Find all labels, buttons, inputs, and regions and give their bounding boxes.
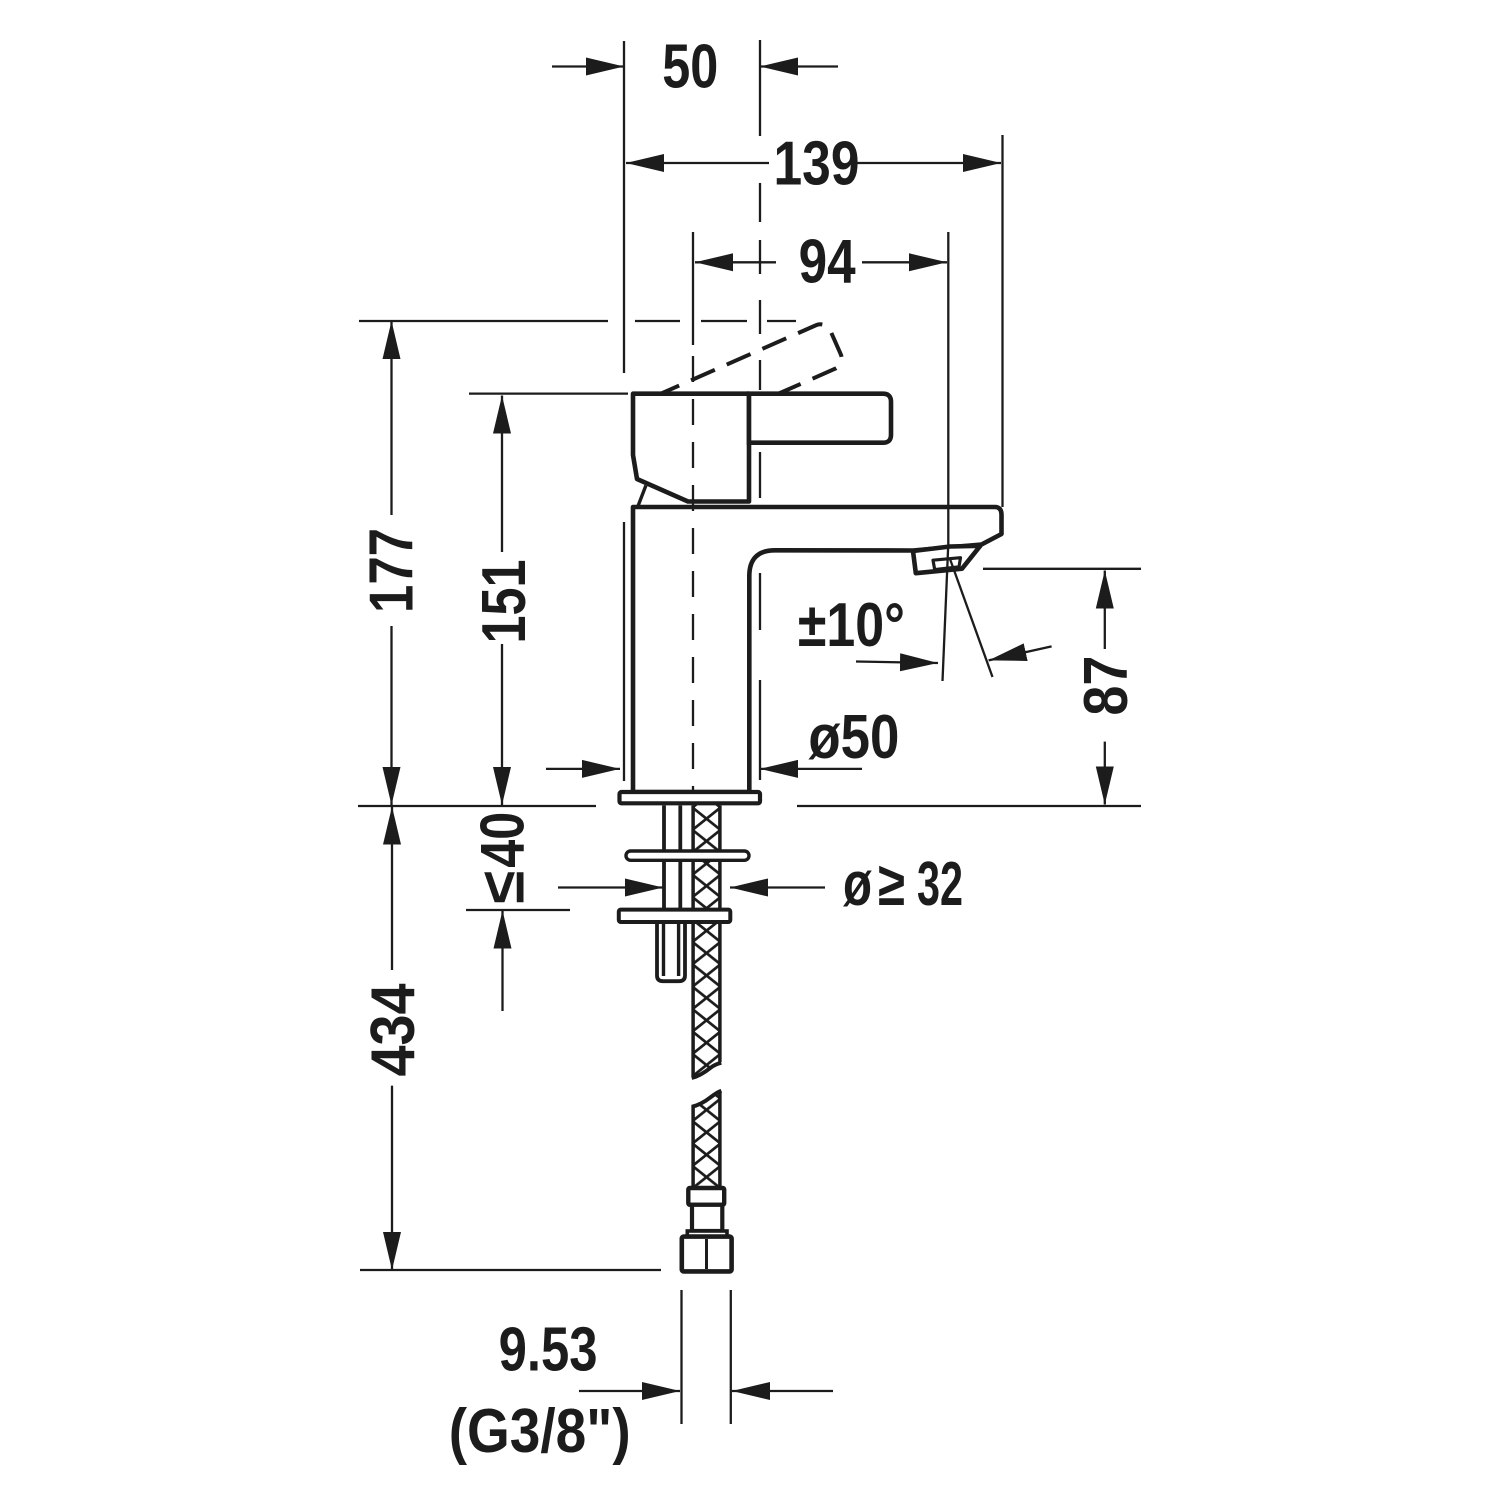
extension line x760 top: [759, 40, 761, 136]
rod end inner lines: [664, 922, 679, 976]
dim 87 top part: [1104, 571, 1106, 650]
mounting surface line left: [358, 805, 596, 807]
svg-text:ø: ø: [843, 850, 872, 919]
handle top dashed extension y321: [359, 320, 796, 322]
dim 434 top arrow: [391, 807, 393, 971]
svg-text:177: 177: [358, 528, 427, 613]
hex nut: [682, 1237, 732, 1272]
aerator notch: [933, 558, 961, 570]
outlet extension line x948: [947, 232, 949, 546]
hose fitting collar 1: [688, 1188, 724, 1205]
braided hose lower segment crosshatch: [693, 1091, 721, 1189]
dim 94 right part: [862, 261, 947, 263]
base flange: [620, 792, 761, 803]
handle base block: [633, 394, 749, 502]
dim 177 top part: [390, 321, 392, 515]
dim o50 left arrow: [546, 768, 620, 770]
extension line left x624 upper: [623, 41, 625, 373]
extension line y393.6: [469, 392, 628, 394]
svg-text:151: 151: [470, 560, 539, 644]
hex nut facet line: [705, 1239, 708, 1269]
9.53 extension right: [730, 1290, 732, 1424]
dim 50 left arrow: [552, 65, 624, 67]
dim 9.53 left arrow: [579, 1390, 680, 1392]
dashed raised handle lever: [645, 321, 845, 444]
svg-text:40: 40: [469, 812, 538, 868]
dim 40 lower arrow: [501, 911, 503, 1012]
bottom extension y1270: [360, 1269, 661, 1271]
svg-text:32: 32: [917, 850, 963, 919]
dim 139 right part: [856, 162, 1001, 164]
svg-text:139: 139: [774, 129, 860, 198]
extension line right x1002: [1001, 135, 1003, 507]
dim 94 left part: [695, 261, 776, 263]
centerline x693 dashed: [692, 356, 694, 792]
faucet body and spout outline: [633, 507, 1002, 792]
angle arrow left: [856, 662, 938, 664]
dim 50 right arrow: [760, 65, 838, 67]
svg-text:ø50: ø50: [808, 703, 899, 772]
solid handle lever: [749, 394, 891, 443]
dim o50 right arrow: [760, 768, 862, 770]
hose fitting collar 2: [692, 1205, 722, 1231]
dim o32 right arrow: [730, 886, 825, 888]
spray line tilted: [950, 559, 993, 677]
hose upper edges: [693, 806, 720, 1077]
spray line vertical: [943, 546, 949, 681]
extension line x760 lower: [759, 573, 761, 780]
svg-text:434: 434: [359, 983, 428, 1076]
svg-text:50: 50: [662, 32, 718, 101]
svg-text:9.53: 9.53: [499, 1315, 598, 1384]
svg-text:94: 94: [799, 228, 856, 297]
9.53 extension left: [680, 1290, 682, 1424]
dim 177 bottom part: [390, 626, 392, 805]
svg-text:±10°: ±10°: [798, 591, 905, 660]
hose lower edges: [693, 1091, 720, 1188]
washer2 level tick: [466, 909, 570, 911]
dim 9.53 right arrow: [732, 1390, 833, 1392]
mounting surface line right: [797, 805, 1141, 807]
hose upper break cut: [692, 1063, 722, 1078]
dim 87 bottom part: [1104, 742, 1106, 805]
extension line x760 mid: [759, 452, 761, 498]
rod end sleeve: [657, 922, 685, 981]
svg-text:(G3/8"): (G3/8"): [449, 1397, 631, 1466]
svg-text:≥: ≥: [878, 850, 905, 919]
extension line x760 dashes: [759, 183, 761, 390]
svg-text:≤: ≤: [469, 871, 538, 904]
extension line left x624 lower: [623, 522, 625, 781]
87 top extension: [983, 568, 1141, 570]
washer 2: [619, 910, 731, 922]
dim 151 top part: [501, 396, 503, 553]
braided hose upper segment crosshatch: [693, 805, 721, 1077]
extension line x693 upper: [692, 232, 694, 345]
dim 151 bottom part: [501, 644, 503, 805]
aerator cup at spout tip: [913, 546, 980, 573]
block chamfer sliver line: [638, 486, 646, 507]
angle arrow right: [989, 646, 1052, 660]
hose lower break cut: [692, 1091, 722, 1107]
washer 1: [626, 851, 749, 860]
svg-text:87: 87: [1072, 656, 1141, 716]
fitting neck band: [687, 1231, 727, 1237]
dim 434 bottom part: [391, 1086, 393, 1270]
dim o32 left arrow: [558, 886, 663, 888]
dim 139 left part: [626, 162, 769, 164]
threaded rod upper lines: [664, 806, 680, 910]
